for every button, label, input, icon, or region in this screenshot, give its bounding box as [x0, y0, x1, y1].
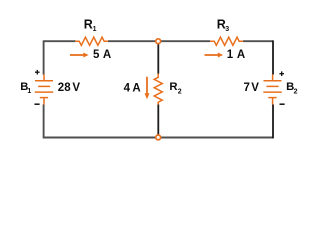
wire right upper — [272, 40, 274, 74]
svg-text:1: 1 — [27, 88, 31, 95]
resistor R3 — [210, 37, 243, 45]
svg-text:1A: 1A — [227, 49, 246, 61]
current arrow 4 A — [145, 77, 150, 100]
svg-text:5A: 5A — [93, 49, 111, 61]
B2 plus sign — [279, 71, 284, 76]
wire right lower — [272, 104, 274, 138]
wire left lower — [43, 104, 45, 138]
wire top-right segment — [243, 40, 273, 42]
current arrow 5 A — [70, 53, 89, 58]
svg-text:4A: 4A — [124, 83, 141, 95]
svg-text:R: R — [169, 81, 177, 93]
svg-text:R: R — [84, 17, 93, 31]
wire top-middle segment — [108, 40, 210, 42]
svg-text:28V: 28V — [58, 82, 81, 94]
svg-text:7V: 7V — [244, 82, 260, 94]
svg-text:2: 2 — [178, 88, 182, 95]
battery B2 — [263, 74, 281, 104]
resistor R1 — [75, 37, 108, 45]
node junction bottom — [156, 135, 161, 140]
wire middle lower — [157, 104, 159, 137]
current arrow 1 A — [205, 53, 224, 58]
wire top-left segment — [44, 40, 76, 42]
B1 minus sign — [35, 103, 40, 105]
wire bottom — [44, 137, 273, 139]
B2 minus sign — [280, 103, 285, 105]
B1 plus sign — [35, 70, 40, 75]
wire left upper — [43, 40, 45, 74]
resistor R2 — [154, 74, 162, 105]
svg-text:2: 2 — [294, 89, 298, 96]
node junction top — [156, 39, 161, 44]
svg-text:3: 3 — [225, 26, 229, 33]
svg-text:1: 1 — [93, 26, 97, 33]
wire middle upper — [157, 42, 159, 74]
battery B1 — [35, 74, 53, 104]
